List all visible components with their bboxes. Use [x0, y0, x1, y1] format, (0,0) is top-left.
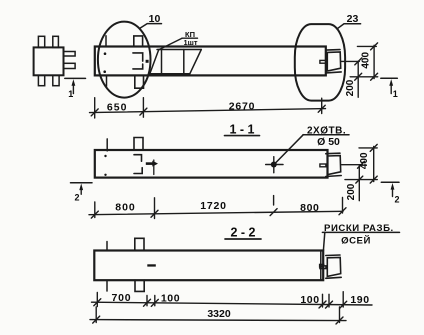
- svg-text:Ø 50: Ø 50: [317, 136, 340, 148]
- svg-text:100: 100: [300, 294, 319, 306]
- svg-text:3320: 3320: [207, 308, 231, 320]
- svg-text:100: 100: [161, 292, 180, 304]
- svg-text:2: 2: [394, 195, 399, 205]
- svg-text:2670: 2670: [229, 100, 256, 112]
- svg-text:1шт: 1шт: [183, 38, 197, 47]
- svg-text:800: 800: [300, 202, 319, 214]
- svg-text:23: 23: [347, 13, 359, 25]
- svg-text:800: 800: [115, 202, 136, 214]
- svg-text:1: 1: [393, 89, 398, 99]
- svg-text:200: 200: [346, 183, 357, 200]
- svg-text:1 - 1: 1 - 1: [229, 122, 254, 136]
- svg-text:400: 400: [361, 52, 372, 69]
- svg-text:400: 400: [359, 152, 370, 169]
- svg-text:РИСКИ РАЗБ.: РИСКИ РАЗБ.: [324, 223, 394, 234]
- svg-text:700: 700: [112, 292, 132, 304]
- svg-text:200: 200: [345, 79, 356, 96]
- svg-text:10: 10: [149, 13, 161, 25]
- svg-text:1: 1: [68, 89, 73, 99]
- svg-text:2ХØТВ.: 2ХØТВ.: [307, 126, 346, 137]
- svg-text:2 - 2: 2 - 2: [230, 225, 255, 239]
- svg-text:2: 2: [74, 193, 79, 203]
- svg-text:ØСЕЙ: ØСЕЙ: [341, 235, 371, 247]
- svg-text:190: 190: [350, 294, 369, 306]
- svg-text:1720: 1720: [200, 200, 227, 212]
- svg-text:650: 650: [107, 102, 128, 114]
